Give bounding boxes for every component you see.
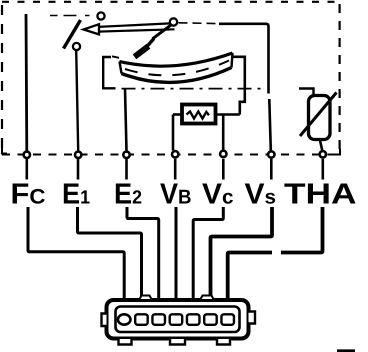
potentiometer arc outer bottom	[122, 68, 232, 83]
connector pin hole 5	[187, 314, 200, 325]
arc tip tick	[112, 56, 119, 58]
switch top contact	[97, 12, 104, 19]
wire E2 internal	[125, 89, 127, 151]
wire THA internal	[320, 140, 323, 151]
stub Vs	[270, 159, 273, 180]
arc dashed centerline	[125, 61, 229, 76]
dashed box bottom border	[2, 154, 339, 156]
switch blade	[64, 20, 81, 49]
stray mark bottom-right	[337, 349, 355, 352]
dashed box right border	[339, 4, 341, 150]
wire Vs to connector	[211, 207, 273, 301]
terminal E2	[123, 152, 129, 158]
wiper arm mid	[146, 39, 154, 48]
thermistor lead	[299, 89, 314, 97]
connector body	[107, 300, 249, 339]
terminal Vs	[268, 151, 274, 157]
wire E1 internal	[76, 50, 78, 150]
resistor right lead	[216, 113, 240, 116]
wire E2 to connector	[127, 207, 159, 301]
connector bottom tab 3	[217, 339, 230, 345]
wire faint link Fc to switch	[50, 15, 90, 17]
connector pin hole 2	[135, 314, 148, 325]
label E1	[64, 184, 90, 204]
wire wiper to Vs (dashed part)	[179, 22, 221, 25]
wiper pivot circle	[170, 18, 177, 25]
label Vs	[245, 184, 275, 204]
dashed box left border	[1, 5, 3, 153]
terminal VB	[172, 151, 178, 157]
potentiometer arc top	[120, 53, 233, 66]
arrow shaft upper line	[98, 23, 170, 27]
box bottom-right corner	[334, 149, 340, 155]
terminal THA	[320, 151, 326, 157]
connector bottom tab 2	[170, 339, 185, 345]
terminal Vc	[220, 151, 226, 157]
stub Fc	[25, 159, 28, 180]
wiper arm upper	[153, 24, 173, 39]
connector pin hole 3	[152, 314, 165, 325]
arrow shaft lower line	[98, 29, 175, 31]
wire Vc branch	[222, 115, 225, 150]
connector pin hole 1 (round)	[118, 314, 131, 324]
pot right bracket	[232, 57, 245, 115]
connector left tab	[102, 314, 107, 327]
wire VB riser	[172, 115, 175, 151]
label Vc	[202, 184, 233, 204]
terminal Fc	[24, 152, 30, 158]
connector pin hole 7	[221, 314, 234, 325]
wire Fc to connector	[28, 207, 124, 301]
stub E2	[125, 159, 128, 180]
wire THA to connector (right part)	[281, 207, 323, 253]
wiper contact foot	[135, 46, 149, 57]
connector top bump left	[139, 296, 152, 301]
arrow head (hollow, points left)	[84, 24, 100, 34]
connector bottom tab 1	[119, 339, 132, 345]
dashed box top border	[2, 1, 339, 3]
wire E1 to connector	[78, 207, 142, 301]
thermistor THA body	[309, 96, 331, 140]
connector pin hole 6	[204, 314, 217, 325]
thermistor diagonal	[300, 93, 337, 137]
wire Vs vertical lower	[269, 99, 271, 151]
label Fc	[13, 184, 45, 204]
wire VB to connector	[175, 207, 178, 301]
wire Vs corner	[219, 24, 269, 94]
label VB	[160, 184, 190, 204]
label E2	[116, 184, 141, 204]
box bottom-left corner	[2, 148, 7, 154]
stub THA	[321, 159, 324, 180]
stub Vc	[222, 159, 225, 180]
stub VB	[174, 159, 177, 180]
resistor R box	[182, 105, 216, 124]
switch bottom contact	[73, 43, 80, 50]
wire THA to connector (left part)	[228, 253, 272, 302]
resistor left lead	[173, 113, 182, 116]
dash-dot baseline	[122, 88, 265, 90]
wire Vc to connector	[193, 207, 223, 301]
pot left bracket	[103, 57, 115, 88]
connector right tab	[249, 312, 256, 324]
wire Fc internal	[25, 14, 29, 151]
stub E1	[77, 159, 80, 180]
arc left tip	[120, 62, 122, 74]
connector pin hole 4	[170, 314, 183, 325]
connector top bump right	[200, 296, 214, 301]
terminal E1	[75, 152, 81, 158]
connector inner frame	[116, 307, 240, 333]
resistor zigzag	[187, 112, 210, 119]
arc right tip	[232, 53, 233, 68]
label THA	[284, 184, 355, 204]
